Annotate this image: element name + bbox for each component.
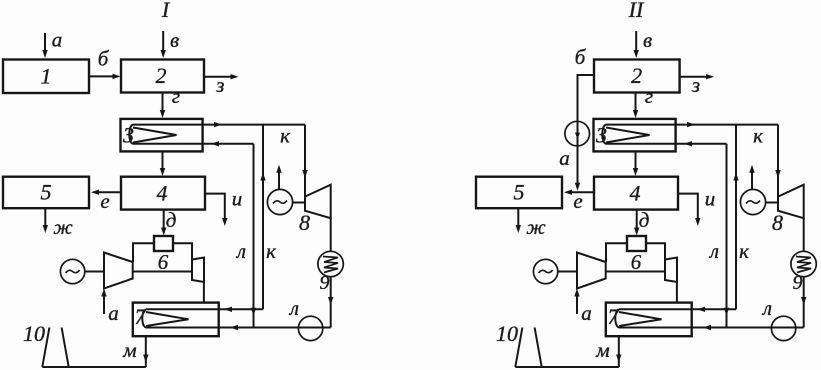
svg-text:II: II <box>628 0 645 22</box>
svg-text:а: а <box>52 28 63 52</box>
svg-text:л: л <box>289 296 299 320</box>
svg-text:5: 5 <box>514 180 525 205</box>
svg-text:10: 10 <box>23 321 45 346</box>
svg-text:2: 2 <box>156 63 167 88</box>
svg-text:д: д <box>639 208 650 232</box>
svg-text:7: 7 <box>608 304 620 329</box>
svg-text:3: 3 <box>595 123 607 148</box>
svg-text:з: з <box>691 73 700 97</box>
svg-text:б: б <box>575 45 587 69</box>
svg-text:г: г <box>172 84 180 108</box>
svg-text:3: 3 <box>122 123 134 148</box>
svg-text:8: 8 <box>299 210 310 235</box>
svg-text:1: 1 <box>41 64 52 89</box>
svg-text:и: и <box>705 187 716 211</box>
svg-text:к: к <box>739 239 749 263</box>
svg-text:8: 8 <box>772 210 783 235</box>
svg-text:2: 2 <box>631 63 642 88</box>
svg-text:5: 5 <box>41 180 52 205</box>
svg-text:в: в <box>170 28 179 52</box>
svg-text:6: 6 <box>631 250 642 274</box>
svg-text:л: л <box>236 239 246 263</box>
svg-text:л: л <box>709 239 719 263</box>
svg-text:к: к <box>266 239 276 263</box>
svg-text:9: 9 <box>793 272 803 294</box>
svg-text:ж: ж <box>526 215 546 239</box>
svg-text:к: к <box>753 124 763 148</box>
svg-text:6: 6 <box>158 250 169 274</box>
svg-text:е: е <box>100 189 109 213</box>
svg-text:9: 9 <box>320 272 330 294</box>
svg-text:г: г <box>645 84 653 108</box>
svg-text:ж: ж <box>53 215 73 239</box>
svg-text:10: 10 <box>496 321 518 346</box>
svg-text:д: д <box>166 208 177 232</box>
svg-text:к: к <box>280 124 290 148</box>
svg-text:4: 4 <box>630 181 641 206</box>
svg-text:з: з <box>215 73 224 97</box>
svg-text:м: м <box>122 338 136 362</box>
svg-text:а: а <box>581 301 592 325</box>
svg-text:а: а <box>559 146 570 170</box>
svg-text:л: л <box>762 296 772 320</box>
svg-text:4: 4 <box>157 181 168 206</box>
svg-text:б: б <box>98 47 110 71</box>
svg-text:а: а <box>108 301 119 325</box>
svg-text:е: е <box>573 189 582 213</box>
svg-text:в: в <box>643 28 652 52</box>
svg-text:и: и <box>232 187 243 211</box>
svg-text:м: м <box>595 338 609 362</box>
svg-text:7: 7 <box>135 304 147 329</box>
